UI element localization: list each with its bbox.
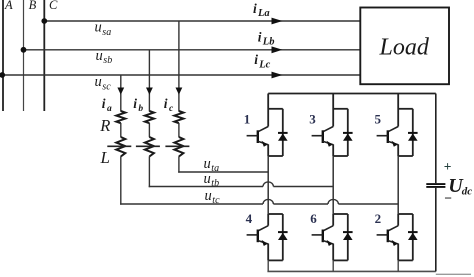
transistor Q4 base lead (247, 234, 258, 236)
wire hop u_tc over leg3 (328, 199, 338, 204)
wire branch i_b vertical (148, 50, 150, 112)
transistor Q6 diode cathode bar (343, 231, 353, 233)
inductor L (phase c) (174, 137, 183, 157)
svg-text:u: u (205, 188, 212, 204)
capacitor C top plate (426, 183, 445, 185)
node junction C/line1 (41, 18, 47, 24)
svg-text:i: i (254, 52, 258, 67)
wire leg a mid segment (267, 156, 269, 214)
svg-text:i: i (102, 96, 106, 111)
wire phase line 1 (top) (44, 20, 360, 22)
transistor Q6 wire collector diagonal (323, 226, 333, 231)
transistor Q1 wire cell top corner (268, 108, 283, 110)
wire arrow i_Lc (272, 72, 283, 79)
svg-text:dc: dc (462, 186, 473, 198)
transistor Q5 wire cell top corner (398, 108, 413, 110)
phase bus C vertical (43, 0, 45, 111)
transistor Q5 wire collector leg (397, 94, 399, 127)
transistor Q4 wire emitter diagonal (258, 241, 268, 245)
svg-text:Lb: Lb (262, 37, 275, 48)
transistor Q6 wire collector leg (332, 214, 334, 226)
transistor Q4 wire emitter leg (267, 244, 269, 261)
transistor Q5 wire collector diagonal (388, 127, 398, 132)
resistor R (phase c) (174, 111, 183, 123)
transistor Q4 wire cell bottom corner (268, 259, 283, 261)
svg-text:3: 3 (309, 111, 316, 126)
svg-text:i: i (164, 96, 168, 111)
wire R-L b (148, 123, 150, 137)
transistor Q3 wire cell top corner (333, 108, 348, 110)
transistor Q4 wire collector diagonal (258, 226, 268, 231)
transistor Q2 wire collector diagonal (388, 226, 398, 231)
transistor Q2 emitter arrow (392, 240, 398, 246)
transistor Q5 diode triangle (408, 134, 418, 141)
svg-text:b: b (138, 104, 143, 114)
transistor Q6 diode triangle (343, 233, 353, 240)
transistor Q5 wire cell bottom corner (398, 155, 413, 157)
transistor Q4 base bar (257, 230, 259, 243)
wire u_tb line left (149, 186, 263, 188)
svg-text:i: i (253, 1, 257, 16)
transistor Q5 wire emitter leg (397, 144, 399, 156)
wire phase line 2 (mid) (24, 49, 361, 51)
transistor Q1 wire collector diagonal (258, 127, 268, 132)
svg-text:Lc: Lc (258, 60, 270, 71)
transistor Q2 wire cell bottom corner (398, 259, 413, 261)
transistor Q3 wire emitter leg (332, 144, 334, 156)
transistor Q1 base bar (257, 130, 259, 143)
wire u_tc line mid (273, 203, 328, 205)
svg-text:1: 1 (244, 111, 251, 126)
wire hop u_tc over leg1 (263, 199, 273, 204)
wire branch a to u_tc (120, 156, 122, 204)
svg-text:B: B (29, 0, 37, 12)
svg-text:4: 4 (246, 211, 253, 226)
svg-text:u: u (204, 171, 211, 187)
transistor Q6 base bar (322, 230, 324, 243)
transistor Q4 wire diode branch (282, 214, 284, 260)
wire leg c to bottom rail (397, 260, 399, 271)
wire capacitor bottom lead (435, 188, 437, 272)
wire R-L a (120, 123, 122, 137)
svg-text:6: 6 (310, 211, 317, 226)
transistor Q2 wire collector leg (397, 214, 399, 226)
wire DC+ top rail (268, 93, 436, 95)
svg-text:c: c (169, 104, 174, 114)
wire arrow i_a (117, 88, 124, 95)
transistor Q1 wire diode branch (282, 109, 284, 156)
wire u_tc line right (338, 203, 398, 205)
svg-text:tc: tc (212, 195, 220, 206)
transistor Q5 wire emitter diagonal (388, 141, 398, 145)
resistor R (phase a) (116, 111, 125, 123)
svg-text:Load: Load (379, 35, 430, 61)
svg-text:La: La (257, 8, 270, 19)
wire hop u_tb over leg1 (263, 182, 273, 187)
svg-text:C: C (49, 0, 58, 12)
svg-text:5: 5 (375, 111, 382, 126)
wire grey tail bottom right (436, 273, 471, 275)
transistor Q3 base bar (322, 130, 324, 143)
transistor Q6 wire emitter leg (332, 244, 334, 261)
node junction B/line2 (21, 47, 27, 53)
svg-text:sc: sc (102, 81, 111, 92)
wire branch b to u_tb (148, 156, 150, 187)
transistor Q1 wire emitter leg (267, 144, 269, 156)
svg-text:u: u (95, 20, 102, 36)
transistor Q1 wire collector leg (267, 94, 269, 127)
transistor Q5 base bar (387, 130, 389, 143)
transistor Q6 base lead (312, 234, 323, 236)
svg-text:i: i (258, 29, 262, 44)
transistor Q2 wire emitter leg (397, 244, 399, 261)
wire arrow i_b (146, 88, 153, 95)
wire u_tc line left (120, 203, 263, 205)
transistor Q1 emitter arrow (262, 141, 268, 147)
transistor Q3 base lead (312, 135, 323, 137)
load box (360, 8, 449, 85)
inductor L (phase b) (145, 137, 154, 157)
transistor Q3 wire diode branch (347, 109, 349, 156)
wire branch c to u_ta (178, 156, 180, 172)
capacitor C bottom plate (426, 186, 445, 188)
transistor Q5 wire diode branch (412, 109, 414, 156)
transistor Q3 wire collector diagonal (323, 127, 333, 132)
transistor Q3 emitter arrow (327, 141, 333, 147)
transistor Q2 wire emitter diagonal (388, 241, 398, 245)
transistor Q6 wire cell bottom corner (333, 259, 348, 261)
svg-text:−: − (444, 190, 452, 205)
transistor Q4 wire collector leg (267, 214, 269, 226)
transistor Q5 emitter arrow (392, 141, 398, 147)
svg-text:2: 2 (375, 211, 382, 226)
transistor Q5 base lead (377, 135, 388, 137)
wire DC- bottom rail (267, 270, 435, 272)
svg-text:a: a (107, 104, 112, 114)
transistor Q2 base bar (387, 230, 389, 243)
svg-text:tb: tb (211, 178, 219, 189)
resistor R (phase b) (145, 111, 154, 123)
transistor Q6 wire diode branch (347, 214, 349, 260)
svg-text:ta: ta (211, 163, 219, 174)
transistor Q1 diode cathode bar (278, 132, 288, 134)
transistor Q4 emitter arrow (262, 240, 268, 246)
transistor Q2 wire diode branch (412, 214, 414, 260)
svg-text:A: A (4, 0, 13, 12)
transistor Q6 wire emitter diagonal (323, 241, 333, 245)
wire u_ta line (178, 171, 268, 173)
svg-text:+: + (444, 159, 452, 174)
svg-text:sb: sb (103, 55, 112, 66)
svg-text:u: u (96, 48, 103, 64)
svg-text:R: R (99, 116, 110, 135)
transistor Q2 wire cell top corner (398, 213, 413, 215)
transistor Q1 wire emitter diagonal (258, 141, 268, 145)
transistor Q1 wire cell bottom corner (268, 155, 283, 157)
node junction A/line3 (0, 72, 5, 78)
transistor Q2 diode triangle (408, 233, 418, 240)
wire leg b mid segment (332, 156, 334, 214)
transistor Q3 wire cell bottom corner (333, 155, 348, 157)
transistor Q1 base lead (247, 135, 258, 137)
transistor Q2 diode cathode bar (408, 231, 418, 233)
wire leg c mid segment (397, 156, 399, 214)
wire branch i_a vertical (120, 75, 122, 112)
wire leg a to bottom rail (267, 260, 269, 271)
transistor Q4 wire cell top corner (268, 213, 283, 215)
phase bus B vertical (23, 0, 25, 111)
transistor Q4 diode triangle (278, 233, 288, 240)
wire arrow i_c (176, 88, 183, 95)
transistor Q3 diode cathode bar (343, 132, 353, 134)
inductor L (phase a) (116, 137, 125, 157)
wire phase line 3 (bottom) (3, 74, 360, 76)
transistor Q4 diode cathode bar (278, 231, 288, 233)
transistor Q3 diode triangle (343, 134, 353, 141)
transistor Q2 base lead (377, 234, 388, 236)
transistor Q6 emitter arrow (327, 240, 333, 246)
wire arrow i_La (272, 18, 283, 25)
transistor Q1 diode triangle (278, 134, 288, 141)
wire leg b to bottom rail (332, 260, 334, 271)
wire branch i_c vertical (178, 21, 180, 112)
wire R-L c (178, 123, 180, 137)
svg-text:sa: sa (102, 27, 111, 38)
svg-text:L: L (100, 148, 110, 167)
wire u_tb line right (273, 186, 333, 188)
wire arrow i_Lb (272, 46, 283, 53)
svg-text:u: u (204, 156, 211, 172)
transistor Q3 wire collector leg (332, 94, 334, 127)
svg-text:i: i (133, 96, 137, 111)
wire capacitor top lead (435, 94, 437, 184)
transistor Q6 wire cell top corner (333, 213, 348, 215)
svg-text:u: u (95, 74, 102, 90)
phase bus A vertical (2, 0, 4, 111)
transistor Q5 diode cathode bar (408, 132, 418, 134)
transistor Q3 wire emitter diagonal (323, 141, 333, 145)
